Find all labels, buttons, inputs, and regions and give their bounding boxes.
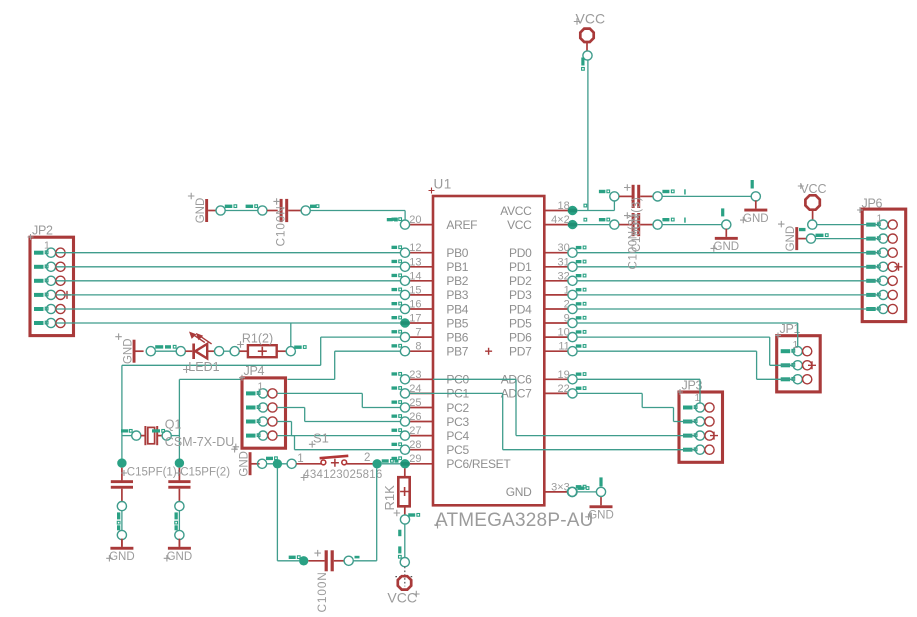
connector JP2 origin cross — [63, 291, 71, 299]
svg-text:PB7: PB7 — [446, 345, 468, 359]
svg-text:434123025816: 434123025816 — [303, 469, 382, 481]
ground GND (U1 GND pin) — [585, 497, 614, 521]
capacitor C100N (reset) — [308, 550, 359, 571]
svg-text:PC5: PC5 — [446, 443, 469, 457]
svg-text:PC2: PC2 — [446, 401, 469, 415]
U1 pin 7 (PB6) left stub — [392, 327, 434, 342]
wire PD3 net: U1 PD3 to JP6 pin6 — [577, 294, 879, 296]
wire cap2 to GND — [662, 208, 731, 229]
wire PC1 net: U1 PC1 through chip to JP3 pin4 — [410, 393, 696, 449]
svg-text:AVCC: AVCC — [500, 204, 532, 218]
connector JP4 pin 1 — [246, 389, 277, 398]
U1 right pin 19 stub — [544, 369, 586, 384]
capacitor C100N(2) (VCC decoupling) — [599, 212, 686, 236]
wire PB0 net: JP2 pin1 to U1 PB0 — [56, 252, 401, 254]
svg-text:GND: GND — [506, 485, 532, 499]
wire C100N reset branch — [277, 468, 376, 560]
connector JP6 pin 2 — [866, 234, 897, 243]
connector JP6 pin 3 — [866, 248, 897, 257]
U1 right pin 4&#215;2 stub — [544, 214, 586, 229]
svg-text:GND: GND — [588, 510, 614, 522]
svg-text:PD6: PD6 — [509, 330, 532, 344]
wire PC3 net: JP4 pin2 to U1 PC3 — [277, 408, 400, 422]
svg-text:27: 27 — [409, 425, 421, 437]
U1 pin 13 (PB1) left stub — [392, 256, 434, 271]
connector JP4 pin 3 — [246, 417, 277, 426]
svg-text:1: 1 — [258, 381, 264, 393]
connector JP4 pin 1 number — [258, 381, 264, 393]
svg-text:GND: GND — [109, 551, 135, 563]
node LED chain circle 3 — [215, 347, 224, 356]
LED LED1 — [155, 332, 214, 360]
connector JP3 pin 1 number — [695, 392, 701, 404]
value labels C100N(3) / C100N(2) (vertical) — [627, 197, 643, 270]
svg-text:C100N: C100N — [315, 571, 329, 612]
node AREF chain circle 3 — [301, 205, 319, 215]
ground GND (LED, rotated) — [115, 333, 143, 364]
U1 pin 24 (PC1) left stub — [392, 383, 434, 398]
wire PB6/XTAL1 net — [122, 337, 401, 463]
connector JP2 body — [30, 237, 74, 335]
connector JP3 reference label — [677, 379, 702, 396]
svg-text:26: 26 — [409, 411, 421, 423]
R1K reference label (vertical) — [382, 485, 400, 516]
capacitor C15PF(1) — [111, 468, 133, 547]
wire PB5 net: JP2 pin6 to U1 PB5 — [56, 322, 401, 324]
connector JP1 origin cross — [808, 361, 816, 369]
wire GND to JP6 pin 2 — [816, 238, 880, 240]
U1 pin 12 (PB0) left stub — [392, 242, 434, 257]
svg-text:2: 2 — [564, 299, 570, 311]
U1 right pin 1 stub — [544, 284, 586, 299]
svg-text:14: 14 — [409, 270, 421, 282]
svg-text:23: 23 — [409, 369, 421, 381]
svg-text:ATMEGA328P-AU: ATMEGA328P-AU — [435, 510, 594, 531]
node LED chain circle 4 — [224, 347, 240, 356]
svg-text:PD7: PD7 — [509, 345, 532, 359]
node R1(2) right terminal — [286, 346, 306, 356]
svg-text:PC3: PC3 — [446, 415, 469, 429]
LED1 reference label — [183, 360, 220, 374]
U1 right pin 18 stub — [544, 200, 586, 215]
connector JP3 origin cross — [710, 432, 718, 440]
node LED chain circle 1 — [146, 345, 176, 356]
ground GND (C15PF(2)) — [164, 539, 192, 563]
wire PC5 net: JP4 pin4 to U1 PC5 — [277, 436, 400, 450]
U1 pin 23 (PC0) left stub — [392, 369, 434, 384]
svg-text:C15PF(1): C15PF(1) — [127, 466, 177, 478]
svg-text:PC4: PC4 — [446, 429, 469, 443]
crystal Q1 — [121, 426, 171, 445]
svg-text:20: 20 — [409, 214, 421, 226]
wire R1K to VCC — [398, 524, 405, 558]
svg-text:10: 10 — [558, 327, 570, 339]
wire PB2 net: JP2 pin3 to U1 PB2 — [56, 280, 401, 282]
wire PB5 branch to R1(2) — [290, 323, 292, 347]
svg-text:GND: GND — [785, 226, 797, 252]
wire VCC to JP6 pin 1 — [817, 224, 879, 226]
U1 right pin 22 stub — [544, 383, 586, 398]
wire PD7 net: U1 PD7 to JP1 pin3 — [577, 351, 793, 379]
U1 pin 17 (PB5) left stub — [392, 313, 434, 328]
node R1K lower circle — [400, 513, 419, 524]
junction C100N left — [289, 556, 309, 566]
value label C100N (AREF, vertical) — [274, 205, 288, 246]
svg-text:PC6/RESET: PC6/RESET — [446, 457, 511, 471]
wire S1 left segments — [267, 463, 287, 465]
capacitor C100N (AREF) — [267, 198, 301, 222]
U1 pin 25 (PC2) left stub — [392, 397, 434, 412]
connector JP2 reference label — [28, 224, 53, 241]
svg-text:15: 15 — [409, 284, 421, 296]
connector JP1 pin 2 — [781, 361, 812, 370]
U1 right pin 11 stub — [544, 341, 586, 356]
svg-text:PD4: PD4 — [509, 302, 532, 316]
svg-text:18: 18 — [558, 200, 570, 212]
wire PD6 net: U1 PD6 to JP1 pin2 — [577, 337, 793, 365]
wire S1 right to U1 PC6/RESET — [382, 463, 401, 465]
wire GND pin to ground — [577, 477, 606, 496]
ground GND (AREF filter, rotated) — [188, 193, 216, 224]
wire PC2 net: JP4 pin1 to U1 PC2 — [277, 393, 400, 407]
svg-text:32: 32 — [558, 270, 570, 282]
svg-text:U1: U1 — [434, 177, 452, 192]
connector JP2 pin 1 number — [44, 240, 50, 252]
ground GND (JP6, rotated) — [778, 221, 806, 252]
svg-text:1: 1 — [564, 284, 570, 296]
svg-text:30: 30 — [558, 242, 570, 254]
power VCC symbol (JP6) — [798, 182, 827, 220]
svg-text:PD2: PD2 — [509, 274, 532, 288]
node U1 GND pin circle — [567, 487, 589, 497]
node LED chain circle 2 — [176, 347, 185, 356]
connector JP2 pin 2 — [34, 262, 65, 271]
ground GND (cap C100N(2)) — [711, 229, 740, 253]
U1 pin 28 (PC5) left stub — [392, 439, 434, 454]
junction S1 left / C100N branch — [273, 459, 282, 468]
connector JP3 pin 4 — [683, 445, 714, 454]
connector JP6 pin 4 — [866, 262, 897, 271]
U1 reference label — [429, 177, 452, 194]
svg-text:C100N: C100N — [274, 205, 288, 246]
svg-text:12: 12 — [409, 242, 421, 254]
svg-text:VCC: VCC — [576, 11, 606, 27]
U1 value label ATMEGA328P-AU — [434, 510, 594, 531]
svg-text:17: 17 — [409, 313, 421, 325]
svg-text:8: 8 — [415, 341, 421, 353]
svg-text:PB4: PB4 — [446, 302, 468, 316]
svg-text:11: 11 — [558, 341, 569, 353]
svg-text:29: 29 — [409, 453, 421, 465]
connector JP3 pin 2 — [683, 417, 714, 426]
svg-text:PB1: PB1 — [446, 260, 468, 274]
U1 pin 8 (PB7) left stub — [392, 341, 434, 356]
svg-text:PD0: PD0 — [509, 246, 532, 260]
connector JP6 body — [862, 209, 906, 322]
U1 right pin 10 stub — [544, 327, 586, 342]
connector JP1 reference label — [775, 322, 800, 339]
connector JP1 body — [777, 336, 821, 392]
svg-text:Q1: Q1 — [165, 417, 182, 431]
svg-text:4×2: 4×2 — [551, 214, 570, 226]
svg-text:GND: GND — [743, 213, 769, 225]
svg-text:1: 1 — [44, 240, 50, 252]
wire ADC7 net: U1 ADC7 to JP3 pin2 — [577, 393, 695, 421]
svg-text:31: 31 — [558, 256, 570, 268]
connector JP3 pin 3 — [683, 431, 714, 440]
connector JP6 reference label — [857, 197, 882, 214]
junction U1 PC6/RESET pin + R1K — [404, 468, 406, 477]
S1 reference label — [309, 430, 329, 447]
node AREF chain circle 2 — [246, 205, 267, 215]
junction XTAL2 / C15PF(2) node — [175, 458, 184, 467]
connector JP2 pin 1 — [34, 248, 65, 257]
node AREF chain circle 1 — [216, 205, 237, 215]
wire PD1 net: U1 PD1 to JP6 pin4 — [577, 266, 879, 268]
svg-text:VCC: VCC — [507, 218, 532, 232]
svg-text:PB2: PB2 — [446, 274, 468, 288]
U1 pin 26 (PC3) left stub — [392, 411, 434, 426]
svg-text:JP4: JP4 — [244, 364, 265, 378]
svg-text:LED1: LED1 — [188, 360, 219, 374]
ground GND (cap C100N(3)) — [740, 200, 769, 224]
U1 pin 15 (PB3) left stub — [392, 284, 434, 299]
svg-text:PD3: PD3 — [509, 288, 532, 302]
svg-text:GND: GND — [714, 241, 740, 253]
wire ADC6 net: U1 ADC6 to JP3 pin1 — [577, 379, 700, 403]
Q1 value label CSM-7X-DU — [165, 435, 239, 450]
node JP6 GND pin circle — [806, 234, 828, 244]
svg-text:1: 1 — [877, 213, 883, 225]
svg-text:PB3: PB3 — [446, 288, 468, 302]
power VCC symbol (bottom) with crosshair — [387, 567, 419, 606]
svg-text:VCC: VCC — [387, 590, 417, 606]
U1 pin 29 (PC6) left stub — [392, 453, 434, 468]
wire PD2 net: U1 PD2 to JP6 pin5 — [577, 280, 879, 282]
connector JP2 pin 6 — [34, 318, 65, 327]
svg-text:GND: GND — [195, 198, 207, 224]
svg-text:JP6: JP6 — [862, 197, 883, 211]
U1 pin 16 (PB4) left stub — [392, 299, 434, 314]
connector JP6 pin 6 — [866, 290, 897, 299]
svg-text:VCC: VCC — [800, 182, 826, 196]
C15PF(2) value label — [176, 466, 231, 478]
connector JP4 reference label — [239, 364, 264, 381]
svg-text:S1: S1 — [313, 430, 329, 445]
connector JP2 pin 5 — [34, 304, 65, 313]
svg-text:PB6: PB6 — [446, 330, 468, 344]
switch S1 — [287, 452, 373, 468]
connector JP4 pin 4 — [246, 431, 277, 440]
wire PD4 net: U1 PD4 to JP6 pin7 — [577, 308, 879, 310]
capacitor C100N(3) (AVCC decoupling) — [599, 184, 686, 208]
wire PD0 net: U1 PD0 to JP6 pin3 — [577, 252, 879, 254]
svg-text:13: 13 — [409, 256, 421, 268]
connector JP4 pin 2 — [246, 403, 277, 412]
svg-text:C15PF(2): C15PF(2) — [180, 466, 230, 478]
wire PB4 net: JP2 pin5 to U1 PB4 — [56, 308, 401, 310]
resistor R1K — [398, 477, 409, 515]
svg-text:PB0: PB0 — [446, 246, 468, 260]
connector JP1 pin 1 number — [793, 339, 799, 351]
U1 right pin 31 stub — [544, 256, 586, 271]
svg-text:PB5: PB5 — [446, 316, 468, 330]
IC U1 ATMEGA328P-AU body — [433, 196, 544, 505]
svg-text:C100N(2): C100N(2) — [627, 214, 639, 269]
svg-text:16: 16 — [409, 299, 421, 311]
connector JP3 body — [679, 392, 723, 462]
U1 origin cross — [485, 348, 492, 355]
connector JP3 pin 1 — [683, 403, 714, 412]
wire AREF chain segment — [225, 210, 258, 212]
connector JP2 pin 3 — [34, 276, 65, 285]
svg-text:R1K: R1K — [382, 485, 397, 511]
svg-text:JP3: JP3 — [682, 379, 703, 393]
U1 right pin 3&#215;3 stub — [544, 481, 586, 496]
U1 left pin name labels — [446, 218, 511, 471]
U1 pin 20 (AREF) left stub — [392, 214, 434, 229]
Q1 reference label — [165, 417, 182, 431]
svg-text:PD5: PD5 — [509, 316, 532, 330]
connector JP1 pin 1 — [781, 347, 812, 356]
svg-text:22: 22 — [558, 383, 570, 395]
connector JP4 body — [242, 378, 286, 448]
junction XTAL1 / C15PF(1) node — [117, 458, 126, 467]
ground GND (C15PF(1)) — [106, 539, 134, 563]
U1 right pin 2 stub — [544, 299, 586, 314]
node S1 left circle — [258, 457, 278, 469]
svg-text:9: 9 — [564, 313, 570, 325]
wire PC0 net: U1 PC0 through chip to JP3 pin3 — [433, 379, 695, 435]
svg-text:GND: GND — [167, 551, 193, 563]
C15PF(1) value label — [121, 466, 177, 478]
connector JP6 pin 5 — [866, 276, 897, 285]
U1 right pin 30 stub — [544, 242, 586, 257]
svg-text:R1(2): R1(2) — [242, 332, 273, 346]
connector JP6 pin 7 — [866, 304, 897, 313]
svg-text:PD1: PD1 — [509, 260, 532, 274]
S1 value label 434123025816 — [301, 469, 383, 481]
power VCC symbol (top) — [574, 11, 605, 51]
connector JP6 origin cross — [895, 263, 903, 271]
svg-text:GND: GND — [122, 338, 134, 364]
svg-text:AREF: AREF — [446, 218, 477, 232]
node VCC top pin circle — [581, 51, 592, 70]
U1 right pin 9 stub — [544, 313, 586, 328]
U1 pin 14 (PB2) left stub — [392, 270, 434, 285]
connector JP6 pin 1 number — [877, 213, 883, 225]
wire PB3 net: JP2 pin4 to U1 PB3 — [56, 294, 401, 296]
svg-text:7: 7 — [415, 327, 421, 339]
wire AREF net to U1 pin 20 — [310, 211, 405, 222]
value label C100N (reset, vertical) — [315, 571, 329, 612]
ground GND (S1, rotated) — [231, 446, 259, 477]
svg-text:JP2: JP2 — [32, 224, 53, 238]
connector JP1 pin 3 — [781, 375, 812, 384]
wire PB7/XTAL2 net — [171, 351, 400, 463]
capacitor C15PF(2) — [168, 468, 190, 547]
junction S1 right — [372, 459, 398, 468]
svg-text:2: 2 — [364, 452, 370, 464]
R1(2) reference label — [237, 332, 273, 348]
wire PD5 net: U1 PD5 to JP1 pin1 — [577, 323, 798, 347]
connector JP2 pin 4 — [34, 290, 65, 299]
wire cap1 to GND — [662, 180, 760, 201]
svg-text:19: 19 — [558, 369, 570, 381]
wire VCC feed down to AVCC/VCC pins — [577, 60, 614, 225]
U1 right pin 32 stub — [544, 270, 586, 285]
svg-text:25: 25 — [409, 397, 421, 409]
node JP6 VCC pin circle — [799, 220, 817, 231]
svg-text:CSM-7X-DU: CSM-7X-DU — [165, 435, 234, 449]
U1 right pin name labels — [500, 204, 532, 499]
resistor R1(2) — [239, 345, 286, 357]
wire PC4 net: JP4 pin3 to U1 PC4 — [277, 422, 400, 436]
node VCC bottom pin circle — [400, 558, 409, 567]
svg-text:GND: GND — [238, 451, 250, 477]
U1 pin 27 (PC4) left stub — [392, 425, 434, 440]
connector JP6 pin 1 — [866, 220, 897, 229]
wire PB1 net: JP2 pin2 to U1 PB1 — [56, 266, 401, 268]
svg-text:28: 28 — [409, 439, 421, 451]
